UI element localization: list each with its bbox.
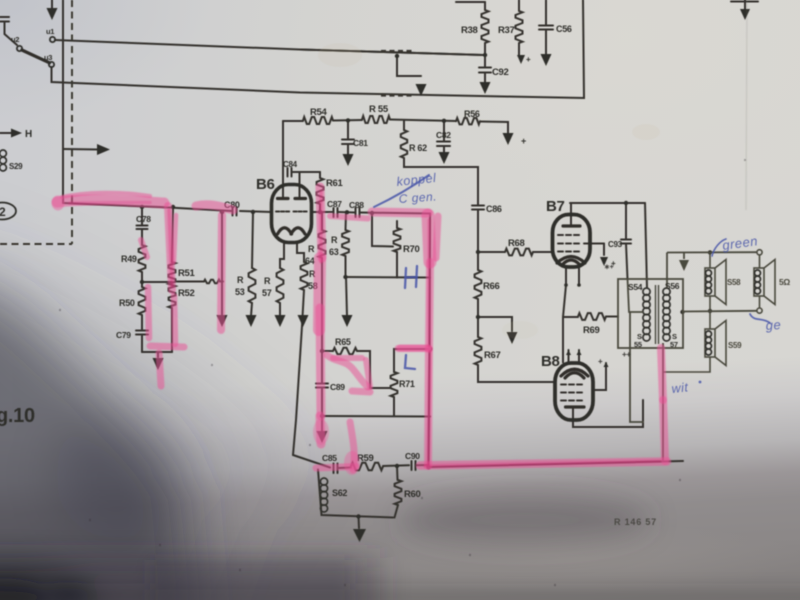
- svg-text:C56: C56: [556, 24, 572, 34]
- svg-text:C84: C84: [283, 160, 298, 169]
- svg-text:+: +: [526, 55, 531, 64]
- svg-text:R71: R71: [399, 379, 415, 389]
- svg-text:R: R: [264, 276, 271, 286]
- svg-text:+: +: [521, 136, 526, 146]
- svg-text:B6: B6: [256, 176, 275, 193]
- svg-text:C86: C86: [486, 204, 502, 214]
- svg-text:S29: S29: [9, 162, 23, 171]
- svg-text:S62: S62: [332, 488, 347, 498]
- svg-text:R37: R37: [498, 25, 515, 36]
- svg-text:+: +: [598, 357, 603, 366]
- svg-text:wit: wit: [671, 380, 689, 396]
- svg-text:green: green: [721, 233, 758, 253]
- svg-text:g.10: g.10: [0, 405, 35, 427]
- svg-text:R65: R65: [335, 337, 351, 347]
- svg-text:C87: C87: [327, 199, 342, 209]
- svg-text:53: 53: [235, 287, 245, 297]
- svg-text:∗+: ∗+: [604, 264, 614, 271]
- svg-text:R52: R52: [178, 288, 195, 299]
- svg-text:u2: u2: [11, 35, 19, 44]
- svg-text:64: 64: [305, 256, 315, 266]
- svg-text:C93: C93: [608, 240, 623, 249]
- svg-text:S56: S56: [665, 281, 680, 291]
- svg-text:B8: B8: [541, 353, 560, 370]
- svg-text:R: R: [308, 244, 315, 254]
- svg-text:R68: R68: [508, 238, 525, 249]
- svg-text:R50: R50: [119, 298, 135, 308]
- svg-text:C90: C90: [405, 451, 420, 461]
- svg-text:55: 55: [634, 340, 642, 349]
- svg-text:R 62: R 62: [409, 143, 427, 153]
- svg-text:C92: C92: [492, 67, 509, 78]
- svg-text:2: 2: [0, 205, 6, 219]
- svg-text:R49: R49: [121, 254, 137, 264]
- svg-text:u1: u1: [46, 27, 54, 36]
- svg-text:S54: S54: [628, 282, 643, 292]
- svg-text:R61: R61: [326, 178, 344, 189]
- svg-text:63: 63: [329, 247, 339, 257]
- svg-text:C82: C82: [436, 130, 451, 140]
- svg-text:R 55: R 55: [369, 104, 389, 115]
- svg-text:R: R: [331, 235, 338, 245]
- svg-text:C81: C81: [353, 138, 368, 148]
- svg-text:++: ++: [622, 350, 631, 359]
- svg-text:C88: C88: [349, 200, 364, 210]
- svg-text:S58: S58: [727, 278, 741, 287]
- svg-text:R66: R66: [483, 281, 500, 292]
- svg-text:R56: R56: [464, 109, 480, 119]
- svg-text:R54: R54: [310, 107, 328, 118]
- svg-text:C89: C89: [330, 382, 345, 392]
- svg-text:ge: ge: [765, 317, 781, 333]
- svg-text:R 146 57: R 146 57: [614, 517, 657, 527]
- svg-text:S59: S59: [728, 341, 742, 350]
- svg-text:R60: R60: [404, 489, 421, 500]
- svg-text:B7: B7: [546, 198, 565, 215]
- svg-text:H: H: [25, 129, 32, 140]
- svg-text:C78: C78: [136, 214, 151, 224]
- svg-text:koppel: koppel: [396, 171, 438, 189]
- svg-text:57: 57: [670, 340, 678, 349]
- svg-text:R: R: [237, 275, 244, 285]
- svg-text:u3: u3: [44, 53, 52, 62]
- svg-text:R67: R67: [484, 350, 501, 361]
- svg-text:57: 57: [262, 288, 272, 298]
- svg-text:R51: R51: [178, 268, 196, 279]
- svg-text:C79: C79: [116, 330, 131, 340]
- svg-text:C85: C85: [322, 453, 337, 463]
- svg-text:5Ω: 5Ω: [779, 277, 790, 287]
- svg-text:R69: R69: [583, 325, 600, 336]
- svg-text:R70: R70: [403, 244, 420, 255]
- svg-text:R38: R38: [461, 25, 478, 36]
